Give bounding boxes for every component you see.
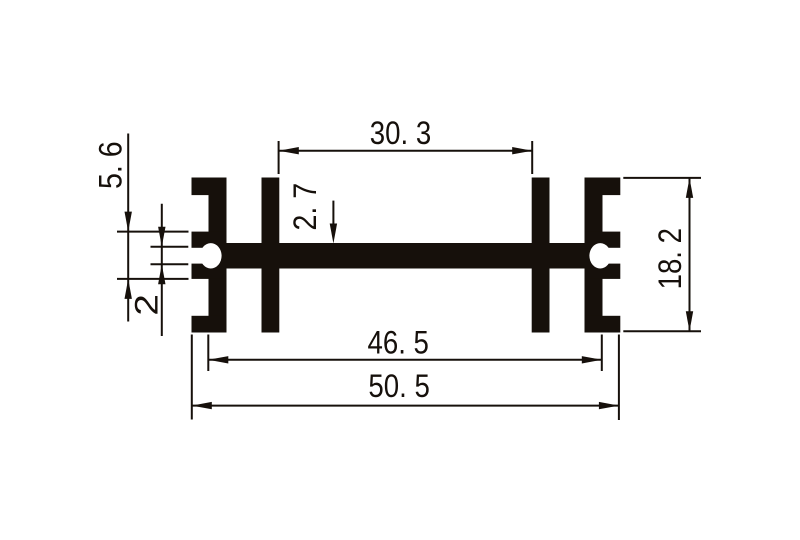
dimension 18.2 — [623, 178, 701, 331]
dimension 2 — [151, 204, 189, 336]
46.5 dimension line — [209, 359, 602, 361]
2 dimension line — [161, 204, 163, 336]
left screw hole — [200, 243, 222, 268]
dimension 50.5 — [192, 335, 619, 421]
right fin — [532, 178, 550, 333]
svg-text:2. 7: 2. 7 — [287, 183, 323, 231]
30.3 right arrowhead — [512, 147, 532, 154]
dimension 5.6 — [117, 134, 189, 322]
46.5 right arrowhead — [582, 356, 602, 363]
46.5 left extension line — [207, 335, 209, 372]
svg-text:50. 5: 50. 5 — [368, 369, 429, 405]
30.3 right extension line — [531, 141, 533, 174]
46.5 right extension line — [601, 335, 603, 372]
50.5 right extension line — [618, 335, 620, 421]
svg-text:46. 5: 46. 5 — [367, 325, 428, 361]
18.2 bottom extension line — [623, 330, 701, 332]
dimension 2.7 leader — [332, 201, 334, 228]
5.6 lower extension line — [117, 278, 189, 280]
50.5 left extension line — [191, 335, 193, 420]
46.5 left arrowhead — [208, 356, 228, 363]
right channel middle finger block — [585, 232, 621, 279]
50.5 dimension line — [192, 405, 618, 407]
dimension 30.3 — [279, 141, 533, 174]
50.5 right arrowhead — [599, 402, 619, 409]
50.5 left arrowhead — [192, 402, 212, 409]
2 down arrowhead — [158, 227, 165, 247]
right screw hole — [589, 243, 611, 268]
central web — [209, 243, 603, 269]
svg-text:30. 3: 30. 3 — [370, 116, 431, 152]
left slot opening — [189, 248, 206, 264]
2 lower extension line — [151, 263, 189, 265]
left fin — [262, 178, 280, 333]
svg-text:2: 2 — [129, 294, 165, 316]
right channel bottom tab — [585, 316, 621, 333]
5.6 dimension line — [127, 134, 129, 322]
left channel middle finger block — [192, 232, 227, 279]
30.3 left extension line — [278, 141, 280, 174]
left channel bottom tab — [192, 316, 227, 333]
18.2 down arrowhead — [686, 311, 693, 331]
30.3 dimension line — [279, 150, 532, 152]
dimension 46.5 — [208, 335, 602, 372]
left channel wall bar — [209, 178, 227, 333]
2.7 leader line — [332, 201, 334, 228]
2 upper extension line — [151, 246, 189, 248]
5.6 up arrowhead — [125, 279, 132, 299]
right channel top tab — [585, 178, 621, 196]
svg-text:18. 2: 18. 2 — [653, 228, 689, 289]
right channel wall bar — [585, 178, 603, 333]
svg-text:5. 6: 5. 6 — [93, 141, 129, 189]
2.7 arrowhead — [330, 224, 337, 244]
2 up arrowhead — [158, 264, 165, 284]
5.6 down arrowhead — [125, 212, 132, 232]
30.3 left arrowhead — [279, 147, 299, 154]
right slot opening — [605, 248, 622, 264]
heatsink profile body (black cross-section) — [192, 178, 621, 333]
18.2 dimension line — [689, 178, 691, 331]
left channel top tab — [192, 178, 227, 196]
5.6 upper extension line — [117, 231, 189, 233]
18.2 up arrowhead — [686, 178, 693, 198]
18.2 top extension line — [623, 177, 701, 179]
